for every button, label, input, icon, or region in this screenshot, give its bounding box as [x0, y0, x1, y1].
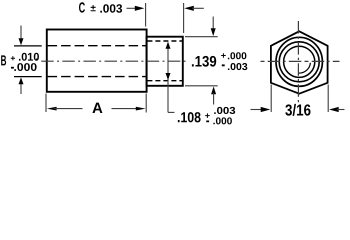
dimension .108 dimension line with arrows and leader — [166, 42, 175, 113]
dimension C left extension line — [145, 3, 147, 27]
dimension 3/16 label — [285, 104, 310, 116]
dimension B bottom arrow — [19, 77, 24, 94]
dimension .108 label — [178, 112, 201, 122]
middle circle — [279, 42, 319, 82]
dimension C right extension line — [183, 3, 185, 33]
minus sign of B tolerance — [11, 67, 14, 69]
dimension B bottom extension line — [14, 76, 42, 78]
dimension B top arrow — [19, 26, 24, 46]
shank (reduced end) — [147, 37, 183, 86]
dimension A right arrow — [112, 107, 146, 111]
dimension 3/16 right extension line — [327, 85, 329, 113]
dimension 3/16 left arrow — [251, 107, 271, 112]
bore hidden line shank bottom — [147, 80, 182, 82]
hex horizontal centerline — [261, 60, 340, 62]
bore hidden line body top — [48, 45, 146, 47]
dimension .139 top arrow — [211, 17, 216, 37]
dimension C right arrow — [184, 6, 204, 11]
bore hidden line shank top — [147, 40, 182, 42]
dimension B top extension line — [14, 45, 42, 47]
centerline side view axis — [41, 60, 189, 62]
body (side view outline) — [47, 30, 147, 92]
dimension B label — [1, 55, 6, 65]
dimension A left arrow — [47, 107, 83, 111]
dimension .139 top extension line — [185, 36, 218, 38]
minus sign of .108 tolerance — [206, 121, 209, 123]
dimension .139 bottom arrow — [211, 86, 216, 104]
dimension A left extension line — [45, 94, 47, 113]
dimension .139 bottom extension line — [185, 85, 218, 87]
dimension C label — [79, 2, 85, 12]
dimension 3/16 left extension line — [270, 85, 272, 113]
dimension 3/16 right arrow — [329, 107, 344, 112]
minus sign of .139 tolerance — [222, 64, 225, 66]
dimension C left arrow — [127, 6, 145, 11]
dimension A label — [92, 103, 102, 113]
dimension A right extension line — [145, 94, 147, 113]
hex vertical centerline — [297, 21, 299, 105]
thread arc (partial, lower right) — [298, 63, 310, 73]
outer circle (chamfer) — [276, 37, 322, 86]
inner circle (hole) — [284, 46, 315, 77]
dimension .139 label — [192, 56, 216, 67]
hexagon (end view) — [271, 31, 328, 93]
bore hidden line body bottom — [48, 76, 146, 78]
